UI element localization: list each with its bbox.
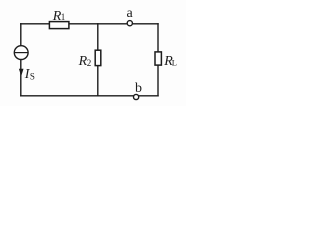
svg-text:1: 1 [61, 12, 66, 22]
svg-text:S: S [30, 72, 35, 82]
svg-text:L: L [172, 58, 177, 68]
svg-text:2: 2 [87, 58, 92, 68]
svg-text:b: b [135, 81, 142, 96]
svg-text:a: a [127, 6, 134, 21]
